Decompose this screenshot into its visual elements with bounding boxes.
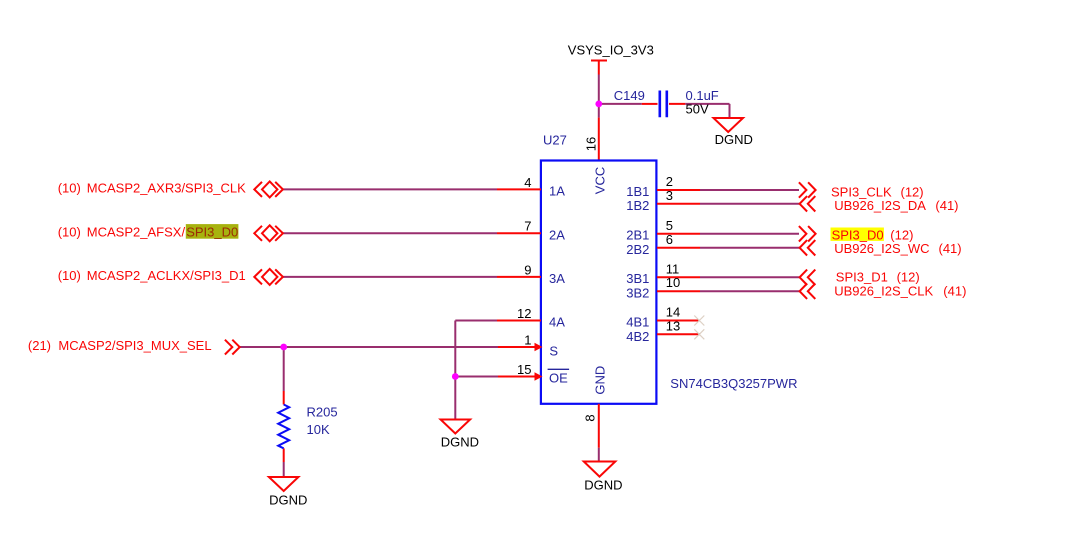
svg-text:3: 3 (666, 188, 673, 203)
svg-text:(21): (21) (28, 338, 51, 353)
svg-text:S: S (549, 343, 558, 358)
svg-text:1B1: 1B1 (626, 184, 649, 199)
svg-text:9: 9 (524, 262, 531, 277)
svg-text:MCASP2_AFSX/: MCASP2_AFSX/ (87, 224, 186, 239)
svg-text:2B2: 2B2 (626, 242, 649, 257)
svg-text:3A: 3A (549, 271, 565, 286)
svg-text:R205: R205 (307, 404, 338, 419)
svg-text:3B1: 3B1 (626, 271, 649, 286)
svg-text:(10): (10) (58, 268, 81, 283)
svg-text:10K: 10K (307, 422, 330, 437)
svg-text:10: 10 (666, 275, 680, 290)
svg-text:(10): (10) (58, 180, 81, 195)
svg-text:2: 2 (666, 174, 673, 189)
svg-text:15: 15 (517, 362, 531, 377)
svg-text:MCASP2/SPI3_MUX_SEL: MCASP2/SPI3_MUX_SEL (58, 338, 211, 353)
svg-text:(10): (10) (58, 224, 81, 239)
svg-text:13: 13 (666, 318, 680, 333)
svg-text:MCASP2_AXR3/SPI3_CLK: MCASP2_AXR3/SPI3_CLK (87, 180, 246, 195)
svg-text:2A: 2A (549, 227, 565, 242)
svg-text:8: 8 (582, 414, 597, 421)
svg-text:1: 1 (524, 332, 531, 347)
svg-text:14: 14 (666, 305, 680, 320)
svg-text:5: 5 (666, 218, 673, 233)
svg-text:GND: GND (593, 366, 608, 395)
svg-text:DGND: DGND (269, 492, 307, 507)
svg-text:UB926_I2S_CLK: UB926_I2S_CLK (834, 283, 933, 298)
svg-text:3B2: 3B2 (626, 285, 649, 300)
svg-text:UB926_I2S_DA: UB926_I2S_DA (834, 198, 926, 213)
svg-text:(41): (41) (943, 283, 966, 298)
svg-text:12: 12 (517, 306, 531, 321)
svg-text:SN74CB3Q3257PWR: SN74CB3Q3257PWR (670, 376, 797, 391)
svg-text:DGND: DGND (584, 477, 622, 492)
svg-text:DGND: DGND (441, 434, 479, 449)
svg-text:1A: 1A (549, 184, 565, 199)
svg-text:2B1: 2B1 (626, 228, 649, 243)
svg-text:16: 16 (584, 137, 599, 151)
svg-text:VCC: VCC (593, 167, 608, 194)
svg-text:OE: OE (549, 370, 568, 385)
svg-text:4B1: 4B1 (626, 315, 649, 330)
svg-text:4A: 4A (549, 315, 565, 330)
svg-text:1B2: 1B2 (626, 198, 649, 213)
svg-text:VSYS_IO_3V3: VSYS_IO_3V3 (568, 42, 654, 57)
svg-text:UB926_I2S_WC: UB926_I2S_WC (834, 241, 929, 256)
svg-text:7: 7 (524, 219, 531, 234)
svg-text:MCASP2_ACLKX/SPI3_D1: MCASP2_ACLKX/SPI3_D1 (87, 268, 246, 283)
svg-text:4B2: 4B2 (626, 329, 649, 344)
svg-text:C149: C149 (614, 88, 645, 103)
svg-text:SPI3_D0: SPI3_D0 (186, 224, 238, 239)
svg-text:(41): (41) (939, 241, 962, 256)
svg-text:U27: U27 (543, 133, 567, 148)
svg-text:4: 4 (524, 175, 531, 190)
svg-text:(41): (41) (935, 198, 958, 213)
svg-text:50V: 50V (686, 101, 709, 116)
svg-text:6: 6 (666, 232, 673, 247)
svg-text:DGND: DGND (715, 132, 753, 147)
svg-text:11: 11 (666, 261, 680, 276)
